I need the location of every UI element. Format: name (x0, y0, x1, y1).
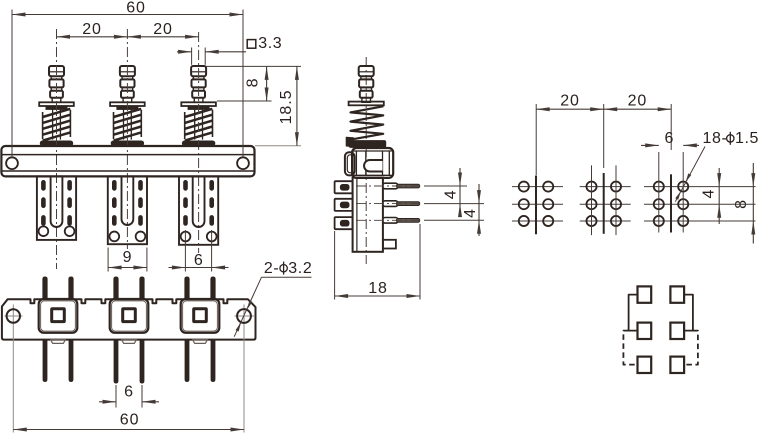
side view: right pin 3 (383, 218, 420, 224)
bottom view: button 3 bottom tab (193, 340, 208, 344)
front view: button 2 spring (110, 102, 145, 145)
hole group 2 center line (603, 173, 605, 234)
svg-text:6: 6 (194, 252, 204, 269)
hole group 1 row centerlines (512, 187, 563, 221)
dimension 4 4 (pin pitch side) (424, 168, 484, 236)
front view: plate hole left (6, 157, 18, 169)
schematic wire left solid (629, 295, 638, 331)
side view: left terminal 2 (335, 199, 353, 211)
bottom view: button 3 cap (181, 299, 220, 333)
dimension 18.5 (overall height) (255, 66, 301, 145)
dimension 20 20 (front top) (57, 21, 199, 39)
side view: centerline (365, 57, 367, 264)
bottom view: button 2 top pins (114, 277, 144, 299)
schematic contact top left (638, 286, 652, 302)
bottom view: base plate outline (2, 299, 256, 339)
hole group 2 column centerlines (592, 165, 617, 235)
hole group 1 holes (519, 182, 554, 227)
dimension 8 (hole rows total) (733, 163, 755, 244)
bottom view: button 2 bottom tab (122, 340, 137, 344)
dimension 9 (block width) (108, 248, 147, 272)
dimension square 3.3 (button stem) (177, 35, 282, 65)
front view: button 1 centerline (56, 29, 58, 269)
front view: button 2 centerline (126, 29, 128, 249)
dimension 60 (front top) (12, 0, 243, 157)
svg-text:3.2: 3.2 (288, 260, 312, 277)
svg-text:18: 18 (368, 280, 388, 297)
svg-text:8: 8 (245, 78, 262, 88)
bottom view: button 1 cap (39, 299, 78, 333)
svg-text:2-: 2- (264, 260, 279, 277)
front view: button 3 plunger (191, 66, 206, 102)
front view: terminal block 2 (108, 176, 147, 244)
schematic contact top right (670, 286, 684, 302)
dimension 20 20 (hole groups) (536, 92, 671, 175)
front view: button 2 plunger (120, 66, 135, 102)
bottom view: button 1 bottom pins (43, 340, 73, 382)
hole group 2 row centerlines (580, 187, 631, 221)
bottom view: button 1 top pins (43, 277, 73, 299)
front view: button 3 centerline (198, 32, 200, 253)
svg-text:4: 4 (462, 208, 479, 218)
svg-text:1.5: 1.5 (735, 130, 759, 147)
side view: clip (345, 152, 355, 175)
front view: mounting plate (1, 146, 254, 176)
hole group 1 center line (535, 176, 537, 235)
front view: button 1 plunger (49, 66, 64, 102)
side view: pin 1 centerline (356, 185, 423, 187)
dimension 4 (hole row pitch) (701, 168, 722, 224)
svg-text:60: 60 (126, 0, 146, 17)
dimension 18 (side width) (335, 224, 420, 300)
bottom view: button 2 cap (110, 299, 149, 333)
svg-text:20: 20 (153, 21, 173, 38)
svg-text:9: 9 (123, 249, 133, 266)
svg-text:4: 4 (443, 189, 460, 199)
hole group 2 holes (586, 182, 621, 227)
schematic contact middle right (670, 323, 684, 339)
side view: left terminal 1 (335, 181, 353, 193)
side view: spring (346, 102, 386, 148)
front view: button 1 spring (39, 102, 74, 145)
side view: plunger (359, 66, 374, 102)
schematic wire right solid (684, 295, 693, 331)
hole group 3 holes (654, 182, 689, 227)
bottom view: button 1 bottom tab (51, 340, 66, 344)
bottom view: mounting hole right (235, 305, 255, 328)
label 18-phi1.5 with leader (675, 130, 759, 202)
bottom view: button 2 bottom pins (114, 340, 144, 383)
svg-text:20: 20 (628, 92, 648, 109)
side view: left terminal 3 (335, 217, 353, 229)
front view: terminal block 3 (179, 176, 218, 244)
schematic wire right dashed (684, 331, 698, 365)
bottom view: button 3 top pins (185, 277, 215, 299)
front view: plate hole right (237, 157, 249, 169)
bottom view: button 3 bottom pins (185, 340, 215, 382)
side view: upper housing (352, 148, 393, 178)
side view: pin 3 centerline (356, 219, 423, 221)
svg-text:18.5: 18.5 (278, 90, 295, 125)
svg-text:6: 6 (124, 383, 134, 400)
front view: button 3 spring (181, 102, 216, 145)
side view: right pin 2 (383, 201, 420, 207)
svg-text:4: 4 (701, 189, 718, 199)
svg-text:60: 60 (120, 411, 140, 428)
svg-text:18-: 18- (703, 130, 728, 147)
label 2-phi3.2 with leader (234, 260, 312, 337)
svg-text:20: 20 (82, 21, 102, 38)
schematic contact bottom right (670, 357, 684, 373)
svg-text:8: 8 (733, 199, 750, 209)
side view: right pin 1 (383, 183, 420, 189)
svg-text:20: 20 (560, 92, 580, 109)
hole group 3 row centerlines (644, 187, 756, 221)
schematic contact middle left (638, 323, 652, 339)
side view: body (353, 178, 396, 252)
dimension 6 (bottom pin spacing) (99, 383, 159, 407)
hole group 3 center line (670, 174, 672, 232)
schematic wire left dashed (623, 331, 637, 365)
schematic contact bottom left (638, 357, 652, 373)
front view: terminal block 1 (37, 176, 76, 240)
dimension 8 (button height) (206, 66, 302, 101)
svg-text:3.3: 3.3 (258, 35, 282, 52)
dimension 60 (bottom) (13, 327, 244, 433)
dimension 6 (block hole spacing) (169, 230, 229, 272)
dimension 6 (hole column spacing) (641, 130, 699, 233)
svg-text:6: 6 (664, 130, 674, 147)
bottom view: mounting hole left (5, 305, 23, 328)
side view: pin 2 centerline (356, 203, 423, 205)
